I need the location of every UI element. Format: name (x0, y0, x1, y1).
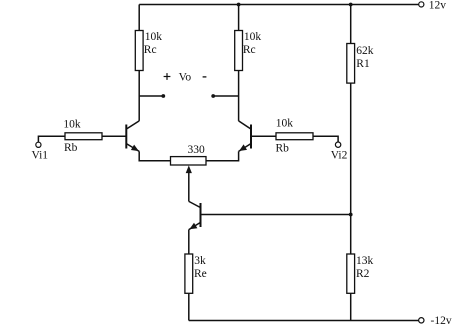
wire bottom -12V rail (189, 320, 419, 322)
svg-text:Rb: Rb (276, 142, 290, 154)
transistor Q1 (126, 121, 139, 151)
wire right collector (238, 71, 240, 121)
terminal -12v (419, 315, 452, 327)
wire Vi1 input (38, 136, 65, 142)
wire R2 to bottom rail (350, 293, 352, 320)
svg-text:13k: 13k (356, 255, 374, 267)
resistor Rc left 10k (135, 31, 162, 71)
svg-text:-12v: -12v (431, 315, 452, 327)
wire pot right end (206, 160, 239, 162)
wire Re to bottom rail (188, 293, 190, 320)
terminal Vi1 (32, 142, 49, 161)
svg-text:10k: 10k (145, 31, 163, 43)
transistor Q3 (189, 201, 201, 229)
svg-text:10k: 10k (276, 118, 294, 130)
svg-text:R1: R1 (356, 58, 370, 70)
svg-text:Vi2: Vi2 (331, 150, 348, 162)
svg-text:R2: R2 (356, 268, 370, 280)
node junction top (R1 rail) (349, 3, 353, 7)
wire R1 to R2 (350, 83, 352, 254)
svg-text:62k: 62k (356, 45, 374, 57)
terminal Vi2 (331, 142, 348, 162)
wire Vi2 input (313, 136, 338, 142)
svg-text:Vo: Vo (179, 71, 192, 83)
wire Q2 emitter (206, 151, 239, 160)
wire rail to left Rc (138, 5, 140, 31)
resistor Rc right 10k (235, 31, 262, 71)
resistor 330 potentiometer (171, 144, 207, 165)
transistor Q2 (239, 121, 251, 151)
svg-text:Rb: Rb (64, 142, 78, 154)
wire rail to right Rc (238, 5, 240, 31)
resistor R2 13k (347, 254, 374, 293)
wire left collector (138, 71, 140, 121)
svg-text:10k: 10k (63, 119, 81, 131)
node junction base/rail (349, 213, 353, 217)
wire R1 rail top (350, 5, 352, 44)
wire Vo tap right (211, 94, 238, 98)
wire top +12V rail (139, 4, 419, 6)
node junction top (right Rc) (237, 3, 241, 7)
resistor Rb right 10k (276, 118, 314, 155)
svg-text:10k: 10k (244, 31, 262, 43)
svg-text:Rc: Rc (243, 44, 256, 56)
svg-text:Re: Re (194, 268, 207, 280)
svg-text:330: 330 (188, 144, 206, 156)
resistor R1 62k (347, 44, 374, 84)
wire Vo tap left (139, 94, 165, 98)
wire Q1 emitter (139, 151, 170, 160)
resistor Re 3k (185, 254, 207, 293)
wire Rb left to base (102, 135, 126, 137)
svg-text:Vi1: Vi1 (32, 150, 49, 162)
wire wiper arrow to Q3 collector (186, 165, 192, 201)
wire Q3 base to rail (201, 214, 351, 216)
terminal 12v (419, 0, 447, 11)
resistor Rb left 10k (63, 119, 102, 155)
svg-text:Rc: Rc (144, 44, 157, 56)
wire Q3 emitter to Re (188, 230, 190, 254)
label Vo (164, 71, 207, 83)
svg-text:3k: 3k (194, 255, 206, 267)
wire Q2 base to Rb (251, 135, 276, 137)
svg-text:12v: 12v (429, 0, 447, 11)
